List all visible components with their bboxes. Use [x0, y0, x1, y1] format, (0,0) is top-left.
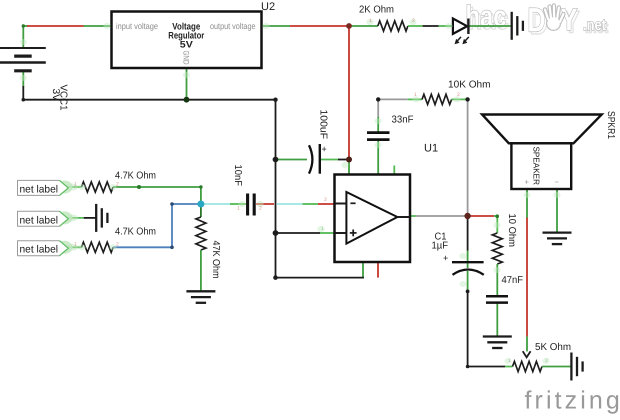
svg-text:2: 2 [259, 206, 262, 212]
svg-text:1: 1 [369, 18, 372, 24]
svg-text:D: D [528, 2, 546, 40]
svg-text:100uF: 100uF [318, 110, 329, 140]
svg-text:1: 1 [237, 206, 240, 212]
svg-text:10 Ohm: 10 Ohm [506, 214, 517, 248]
svg-text:hac: hac [466, 1, 507, 34]
svg-text:−: − [555, 178, 560, 187]
svg-text:SPEAKER: SPEAKER [532, 147, 542, 186]
svg-text:1: 1 [414, 92, 417, 98]
svg-text:2K Ohm: 2K Ohm [359, 4, 394, 15]
svg-text:2: 2 [457, 92, 460, 98]
svg-text:+: + [525, 178, 530, 187]
svg-text:1: 1 [74, 181, 77, 187]
svg-text:+: + [322, 144, 327, 154]
svg-text:4.7K Ohm: 4.7K Ohm [115, 227, 156, 238]
svg-text:5K Ohm: 5K Ohm [535, 342, 571, 353]
svg-text:output voltage: output voltage [210, 21, 256, 31]
svg-text:2: 2 [116, 181, 119, 187]
svg-text:input voltage: input voltage [116, 21, 158, 31]
svg-text:.net: .net [583, 17, 606, 34]
svg-text:10K Ohm: 10K Ohm [448, 80, 491, 91]
svg-text:net label: net label [20, 214, 59, 226]
svg-text:SPKR1: SPKR1 [605, 111, 616, 139]
svg-text:10nF: 10nF [232, 165, 243, 187]
svg-text:net label: net label [20, 244, 59, 256]
svg-text:2: 2 [545, 358, 548, 364]
svg-text:2: 2 [412, 18, 415, 24]
svg-text:33nF: 33nF [392, 114, 414, 125]
svg-text:U1: U1 [424, 143, 438, 155]
svg-text:GND: GND [182, 51, 191, 65]
svg-text:47nF: 47nF [502, 275, 524, 286]
svg-text:5V: 5V [180, 40, 194, 51]
svg-text:fritzing: fritzing [525, 387, 620, 415]
svg-text:2: 2 [324, 197, 327, 203]
svg-text:1µF: 1µF [432, 241, 449, 252]
svg-text:net label: net label [20, 183, 59, 195]
svg-text:4.7K Ohm: 4.7K Ohm [115, 171, 156, 182]
svg-text:1: 1 [321, 226, 324, 232]
svg-text:U2: U2 [261, 1, 275, 13]
svg-text:47K Ohm: 47K Ohm [210, 241, 221, 279]
svg-text:2: 2 [116, 242, 119, 248]
svg-text:3V: 3V [50, 89, 61, 102]
svg-text:1: 1 [508, 358, 511, 364]
svg-text:1: 1 [74, 242, 77, 248]
svg-text:+: + [443, 253, 448, 263]
